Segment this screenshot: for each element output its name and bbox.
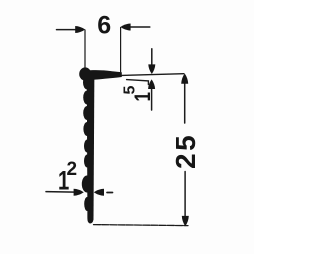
svg-text:25: 25 — [170, 133, 201, 169]
svg-text:2: 2 — [67, 159, 78, 180]
svg-text:6: 6 — [97, 12, 111, 40]
svg-text:5: 5 — [121, 86, 138, 95]
